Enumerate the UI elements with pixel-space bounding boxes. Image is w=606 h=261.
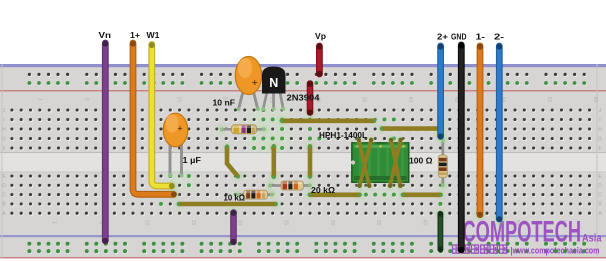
transformer pin wire 1 (355, 136, 363, 144)
resistor R2 10 kOhm (234, 190, 276, 199)
svg-text:15: 15 (190, 220, 196, 226)
wire olive vertical jumper B (306, 142, 315, 151)
svg-text:D: D (2, 183, 6, 189)
svg-text:H: H (2, 127, 6, 133)
wire red jumper Vp rail to row J (305, 81, 315, 117)
resistor R3 20 kOhm (266, 181, 314, 190)
svg-text:35: 35 (361, 97, 367, 103)
resistor R1 (row H) (218, 125, 268, 134)
bottom rail holes row 2 (green) (28, 250, 586, 253)
svg-text:20 kΩ: 20 kΩ (311, 186, 335, 195)
transformer pin wire 3 (387, 136, 395, 144)
svg-text:55: 55 (546, 97, 552, 103)
wire W1 (yellow) (149, 42, 177, 191)
wire olive bent jumper (F to E) (223, 142, 232, 151)
svg-text:W1: W1 (147, 30, 160, 40)
board edge seams (2, 64, 3, 258)
wire olive vertical jumper A (269, 142, 278, 151)
wire 2- (blue) (494, 44, 504, 224)
wire GND (black) (458, 43, 464, 253)
wire Vp (dark red) (317, 44, 323, 77)
svg-text:1: 1 (51, 221, 57, 224)
svg-text:HPH1-1400L: HPH1-1400L (319, 131, 367, 140)
svg-text:35: 35 (375, 220, 381, 226)
wire purple jumper row A to rail (229, 208, 239, 245)
svg-text:C: C (598, 192, 602, 198)
svg-text:10: 10 (144, 220, 150, 226)
component and signal labels (99, 30, 505, 42)
wire olive row-C jumper left (306, 190, 315, 199)
breadboard hole highlights (11, 109, 592, 216)
connected holes (green) (159, 108, 442, 206)
svg-text:2N3904: 2N3904 (287, 94, 321, 103)
svg-text:15: 15 (175, 97, 181, 103)
svg-text:+: + (178, 123, 183, 133)
svg-text:2+: 2+ (437, 32, 448, 42)
wire olive row-B jumper (175, 200, 184, 209)
svg-text:F: F (598, 146, 601, 152)
svg-text:10 kΩ: 10 kΩ (224, 194, 246, 203)
svg-text:GND: GND (451, 32, 467, 42)
bottom rail holes row 1 (green) (28, 243, 586, 246)
svg-text:1 µF: 1 µF (183, 156, 202, 165)
wire olive row-H jumper (378, 124, 387, 133)
svg-text:G: G (2, 136, 6, 142)
capacitor C2 1 uF (163, 113, 187, 177)
svg-text:1: 1 (37, 98, 43, 101)
svg-text:|www.compotechasia.com: |www.compotechasia.com (511, 246, 600, 256)
svg-text:100 Ω: 100 Ω (409, 157, 433, 166)
svg-text:2-: 2- (494, 32, 504, 42)
svg-text:+: + (252, 78, 258, 89)
resistor R4 100 Ohm (vertical) (438, 137, 447, 190)
breadboard holes (10, 108, 591, 214)
svg-text:G: G (598, 136, 602, 142)
svg-text:I: I (599, 117, 600, 123)
transformer U1 HPH1-1400L body (351, 143, 409, 183)
top rail holes row 1 (28, 74, 586, 77)
breadboard bottom rail lines (0, 235, 606, 237)
wire olive row-I jumper (278, 116, 287, 125)
wire olive row-C jumper right (399, 190, 408, 199)
svg-text:20: 20 (236, 220, 242, 226)
wire 2+ (blue) (436, 44, 446, 142)
top rail holes row 2 (green) (28, 82, 586, 85)
wire Vn (purple) (102, 41, 108, 244)
svg-text:D: D (598, 183, 602, 189)
svg-text:C: C (2, 192, 6, 198)
svg-text:N: N (269, 76, 278, 90)
wire dark green jumper (435, 209, 445, 252)
svg-text:COMPOTECH: COMPOTECH (463, 216, 582, 249)
svg-text:10 nF: 10 nF (213, 99, 236, 108)
green glow wash center (249, 105, 289, 151)
COMPOTECH Asia watermark logo (463, 216, 603, 249)
svg-text:40: 40 (421, 220, 427, 226)
svg-text:25: 25 (283, 220, 289, 226)
breadboard center groove (0, 153, 606, 173)
breadboard body (0, 64, 606, 259)
svg-text:1-: 1- (476, 32, 486, 42)
svg-text:H: H (598, 127, 602, 133)
transistor Q1 2N3904 (261, 67, 285, 112)
wire 1- (orange) (475, 44, 485, 220)
svg-text:40: 40 (407, 97, 413, 103)
svg-text:Vp: Vp (315, 31, 326, 41)
transformer pin wire 4 (397, 136, 405, 144)
svg-text:Asia: Asia (582, 233, 602, 245)
svg-text:30: 30 (329, 220, 335, 226)
row letters (2, 108, 602, 217)
watermark chinese characters (drawn) (453, 245, 507, 253)
svg-text:1+: 1+ (130, 30, 140, 40)
svg-text:60: 60 (592, 97, 598, 103)
transformer pin wire 2 (367, 136, 375, 144)
column numbers (37, 97, 606, 226)
svg-text:5: 5 (83, 98, 89, 101)
svg-text:I: I (3, 117, 4, 123)
svg-text:F: F (2, 146, 5, 152)
svg-text:Vn: Vn (99, 30, 112, 40)
wire 1+ (orange) (130, 41, 179, 200)
capacitor C1 10 nF (top) (235, 57, 261, 112)
